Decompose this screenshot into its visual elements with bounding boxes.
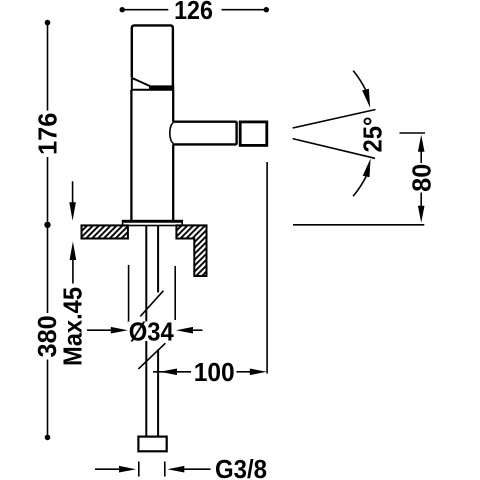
svg-text:126: 126	[174, 0, 213, 25]
angle top arc	[353, 71, 365, 90]
dim 380 bottom dot	[45, 435, 51, 441]
svg-text:Ø34: Ø34	[129, 316, 174, 346]
spout bottom line	[173, 143, 237, 145]
svg-text:100: 100	[194, 357, 235, 387]
pipe break slash B	[138, 343, 165, 369]
dim 126 left dot	[120, 7, 125, 12]
dim mid dot at counter level	[44, 222, 50, 228]
aerator	[240, 122, 267, 145]
angle upper line	[293, 110, 376, 129]
dim G3/8 left arrowhead	[119, 466, 136, 473]
counter right L-block	[176, 225, 206, 276]
angle lower line	[293, 139, 375, 159]
svg-text:25°: 25°	[358, 117, 388, 153]
spout end cap	[235, 122, 237, 145]
dim 380 line lower	[47, 360, 49, 436]
dim G3/8 tail line left	[95, 468, 121, 470]
dim 100 right arrowhead	[250, 369, 267, 376]
dim 126 right dot	[264, 7, 269, 12]
supply pipe left line	[145, 226, 147, 437]
dim O34 right extension line	[174, 266, 176, 320]
counter left block	[82, 225, 128, 238]
dim O34 left extension line	[128, 265, 130, 323]
dim 80 top tick	[400, 132, 426, 134]
dim 100 line right	[237, 371, 253, 373]
dim 80 top arrowhead	[418, 135, 425, 152]
dim 100 left arrowhead	[160, 369, 177, 376]
dim 380 line upper	[47, 228, 49, 313]
dim 126 line left	[123, 9, 168, 11]
body right edge lower	[172, 145, 174, 221]
base flange	[123, 221, 183, 226]
spout top line	[173, 120, 237, 122]
dim 80 line upper	[420, 146, 422, 163]
dim 100 line left	[153, 371, 191, 373]
dim O34 tail line left	[87, 329, 113, 331]
counter reference line	[293, 224, 424, 226]
dim 176/380 top dot	[45, 20, 51, 26]
dim O34 right arrowhead	[176, 327, 193, 334]
Max.45 down arrow line	[72, 181, 74, 214]
dim O34 left arrowhead	[111, 327, 128, 334]
angle bottom arrowhead	[363, 158, 371, 177]
Max.45 down arrowhead	[69, 202, 76, 221]
dim O34 tail line right	[190, 329, 203, 331]
angle bottom arc	[353, 177, 366, 197]
label O34	[128, 322, 175, 341]
handle lever diagonal	[132, 78, 151, 87]
dim G3/8 tail line right	[181, 468, 211, 470]
svg-text:G3/8: G3/8	[215, 454, 267, 480]
pipe break slash A	[140, 291, 163, 317]
dim 176 line upper	[47, 24, 49, 111]
dim 126 line right	[222, 9, 266, 11]
svg-text:Max.45: Max.45	[58, 287, 88, 366]
body top line	[131, 89, 174, 91]
supply pipe right line	[157, 226, 159, 437]
Max.45 up arrowhead	[70, 242, 77, 261]
dim G3/8 right tick	[164, 462, 166, 477]
base flange thick top	[123, 220, 183, 223]
svg-text:176: 176	[33, 113, 63, 156]
svg-text:80: 80	[406, 164, 436, 192]
handle collar thick bar	[149, 85, 174, 89]
spout root arc	[170, 123, 174, 143]
dim G3/8 right arrowhead	[167, 466, 184, 473]
body left edge	[130, 90, 132, 221]
body right edge upper	[172, 90, 174, 122]
dim 80 line lower	[420, 193, 422, 213]
dim 176 line lower	[47, 157, 49, 222]
body left stub at collar	[131, 78, 133, 90]
handle	[132, 25, 173, 87]
dim G3/8 left tick	[138, 462, 140, 477]
dim 80 bottom arrowhead	[418, 206, 425, 223]
G3/8 nut	[138, 437, 166, 452]
angle top arrowhead	[362, 89, 370, 108]
Max.45 up arrow line	[72, 250, 74, 284]
spout tip extension line	[266, 162, 268, 374]
